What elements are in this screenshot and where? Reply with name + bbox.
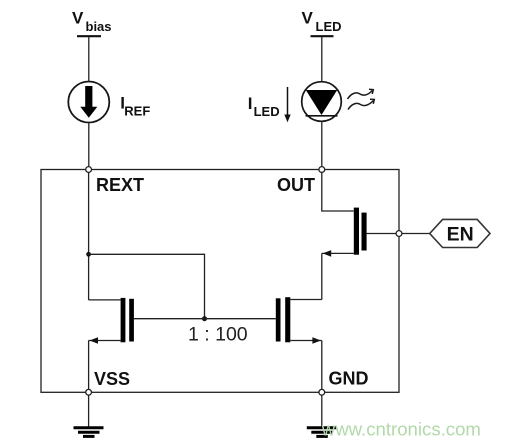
wire LED to OUT node <box>321 121 323 166</box>
wire Vbias to current source <box>88 37 90 82</box>
junction node B on mirror gate line <box>202 316 207 321</box>
svg-text:LED: LED <box>254 104 280 119</box>
svg-text:VSS: VSS <box>94 369 130 389</box>
current source IREF <box>68 82 109 123</box>
light emission arrows <box>348 89 375 109</box>
wire VLED to LED <box>321 37 323 82</box>
svg-text:LED: LED <box>316 19 342 34</box>
svg-text:bias: bias <box>86 19 112 34</box>
port EN hexagon <box>430 219 490 247</box>
wire VSS node to ground <box>88 395 90 427</box>
svg-text:EN: EN <box>447 224 474 246</box>
svg-text:I: I <box>248 94 253 113</box>
mirror gate wire M1 to M2 <box>134 318 276 320</box>
svg-text:OUT: OUT <box>277 175 315 195</box>
IC boundary rectangle <box>41 170 399 393</box>
svg-text:REF: REF <box>124 104 150 119</box>
wire EN node to port <box>399 233 430 235</box>
junction node A <box>86 252 91 257</box>
wire REXT node down to M1 drain <box>88 170 90 301</box>
label IREF <box>120 94 150 119</box>
transistor M2 (right mirror NMOS) <box>276 253 322 389</box>
wire GND node to ground <box>321 395 323 427</box>
svg-text:V: V <box>72 9 84 28</box>
transistor M3 (enable NMOS) <box>322 170 399 257</box>
svg-text:V: V <box>302 9 314 28</box>
wire branch from node A to gate junction <box>89 254 205 318</box>
pin node GND <box>319 389 325 395</box>
transistor M1 (left mirror NMOS) <box>89 298 134 390</box>
svg-text:www.cntronics.com: www.cntronics.com <box>321 418 481 439</box>
pin node VSS <box>86 389 92 395</box>
pin node EN <box>396 231 402 237</box>
svg-text:1 : 100: 1 : 100 <box>188 324 248 346</box>
wire current source to REXT node <box>88 123 90 167</box>
LED D1 <box>302 82 342 122</box>
label ILED with current arrow <box>248 87 291 122</box>
svg-text:GND: GND <box>329 369 369 389</box>
ground (VSS) <box>74 428 104 437</box>
terminal V_bias <box>72 9 112 37</box>
pin node REXT <box>86 167 92 173</box>
terminal V_LED <box>302 9 342 37</box>
ground (GND) <box>307 428 337 437</box>
svg-text:REXT: REXT <box>96 175 144 195</box>
pin node OUT <box>319 167 325 173</box>
